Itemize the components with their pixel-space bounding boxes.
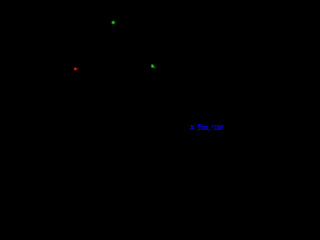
green beam dot (top) xyxy=(112,21,115,24)
oscilloscope screen xyxy=(0,0,225,135)
green comet mark (right) xyxy=(151,64,155,68)
svg-text:5ms, / DIV: 5ms, / DIV xyxy=(197,122,224,132)
svg-text:X: X xyxy=(189,123,196,132)
red beam dot (left) xyxy=(73,67,78,72)
